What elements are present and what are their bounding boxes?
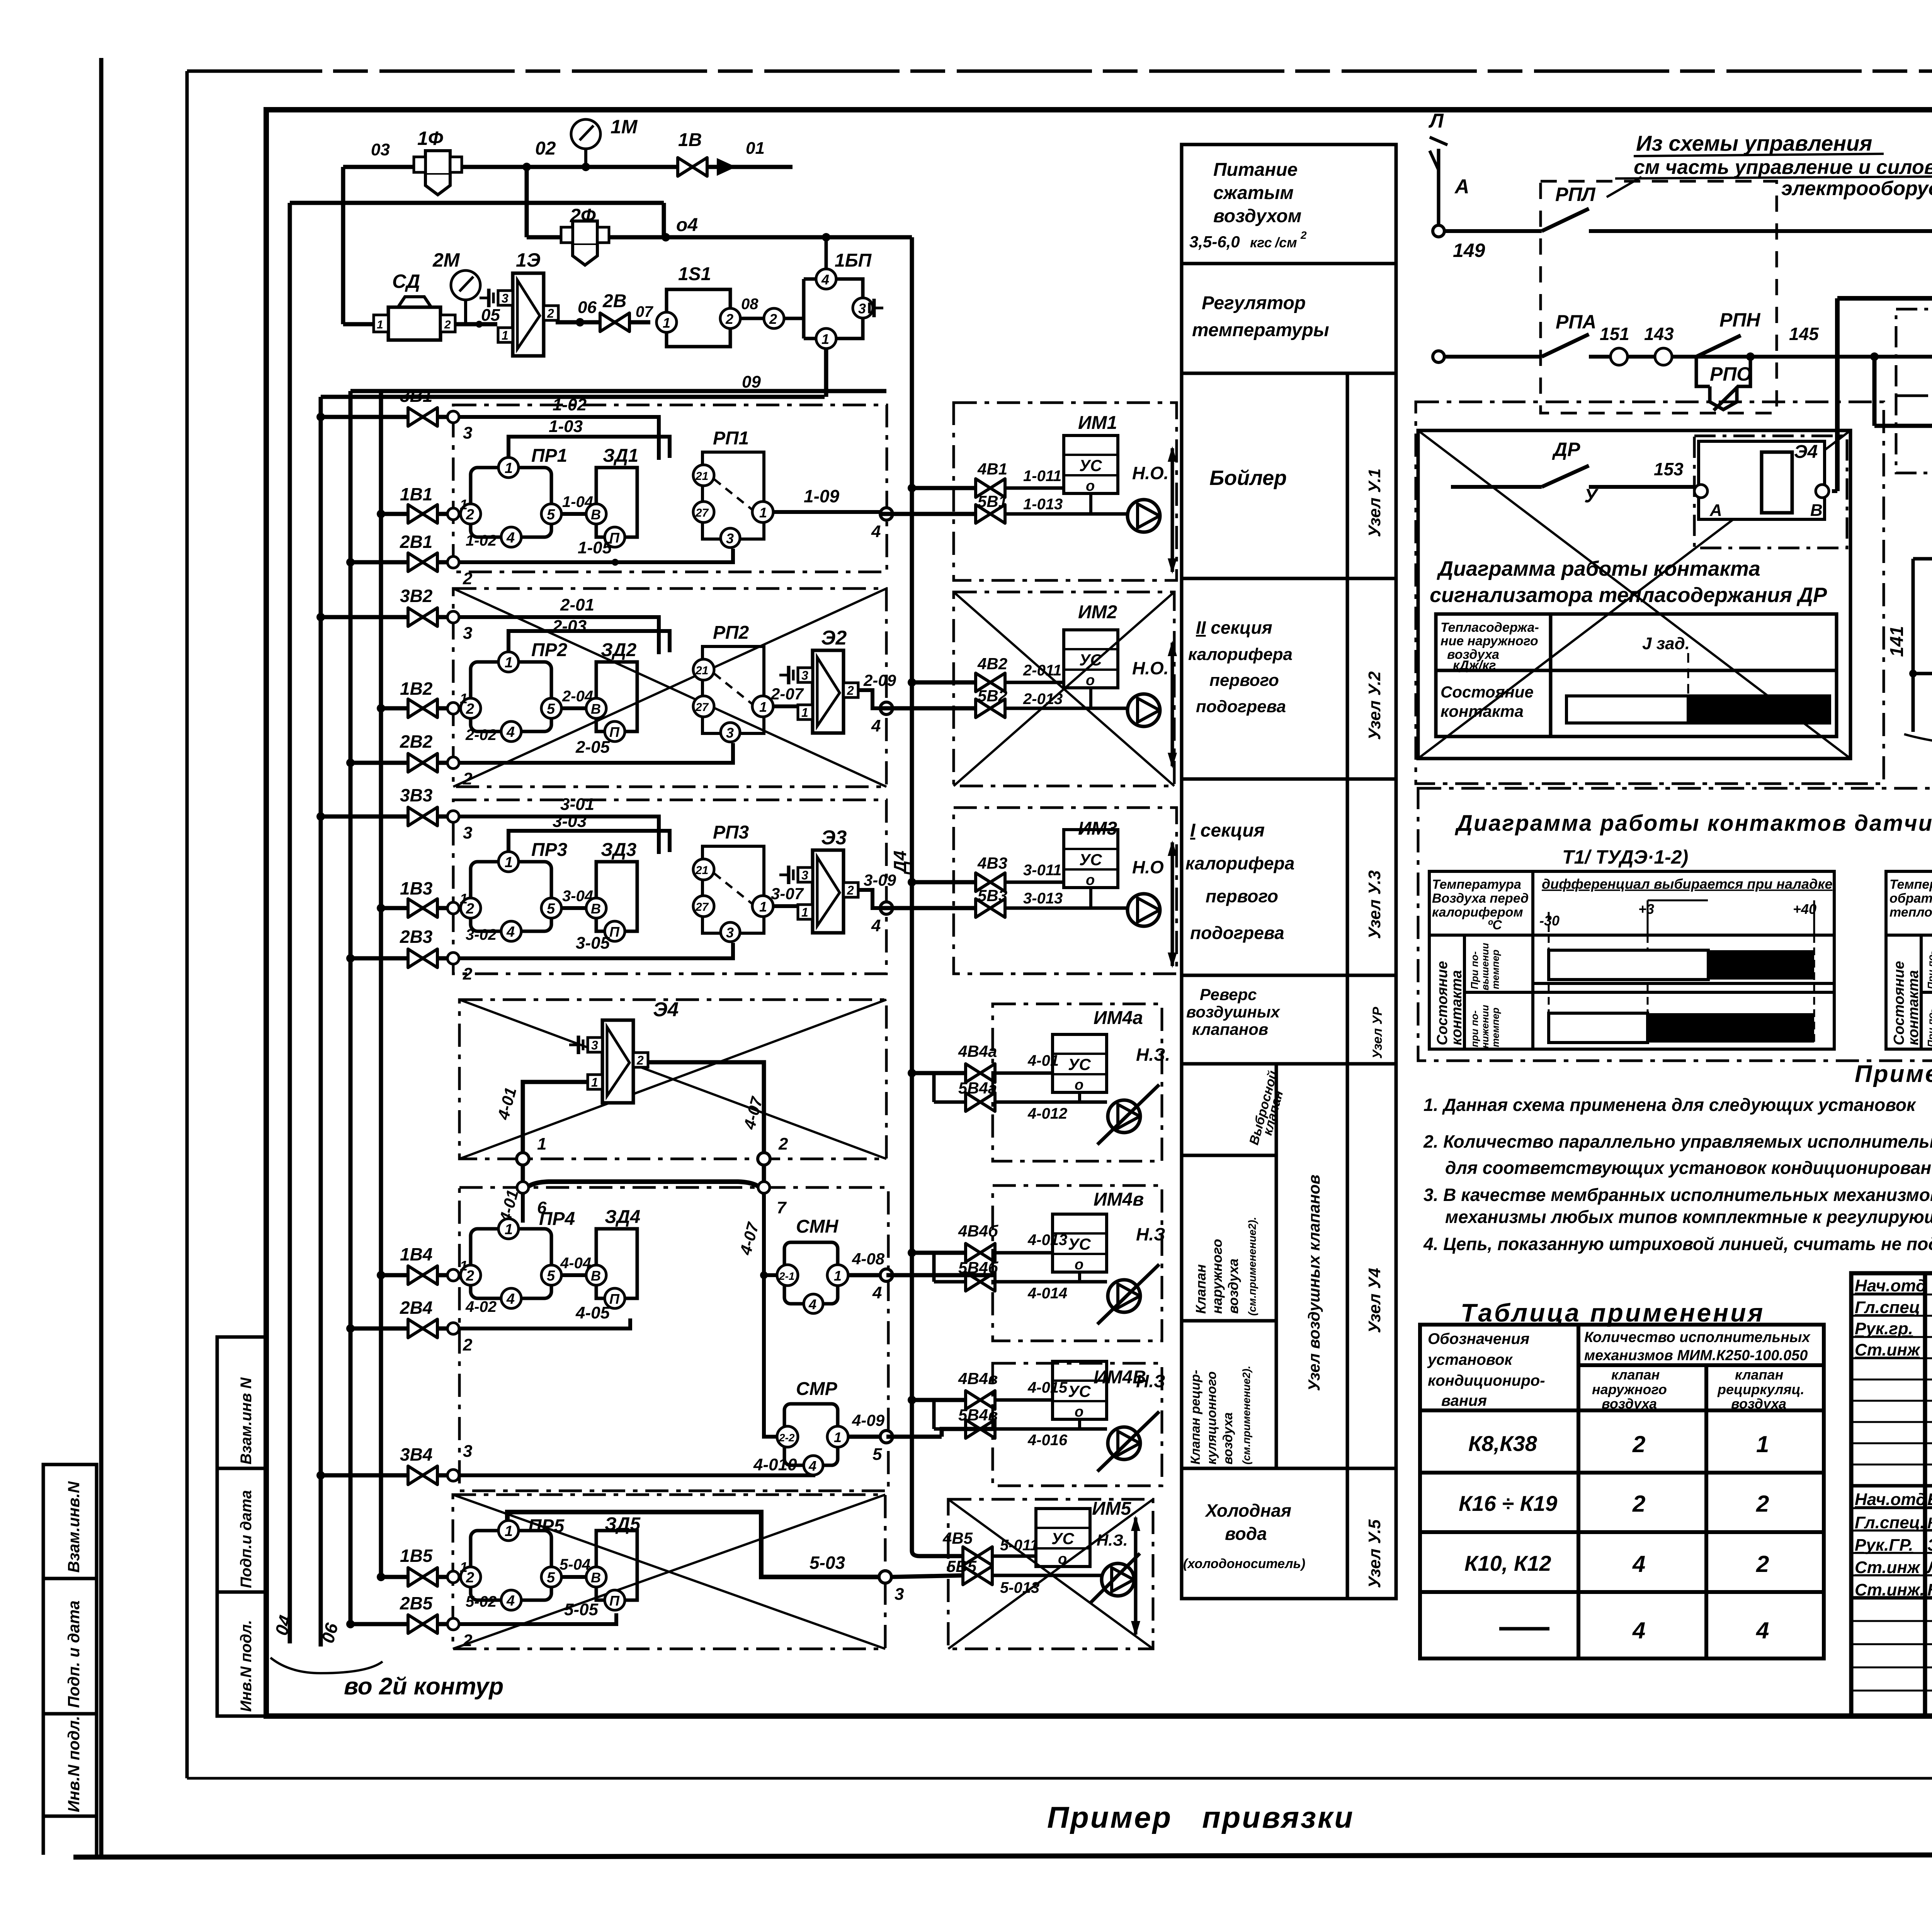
- svg-text:1: 1: [663, 315, 670, 331]
- svg-text:ИМ1: ИМ1: [1078, 413, 1117, 433]
- svg-text:1: 1: [377, 318, 383, 331]
- svg-text:Э2: Э2: [821, 627, 847, 649]
- svg-text:ИМ4в: ИМ4в: [1094, 1189, 1144, 1210]
- svg-text:При по-: При по-: [1925, 951, 1932, 989]
- svg-text:+3: +3: [1638, 901, 1654, 917]
- svg-text:1БП: 1БП: [835, 250, 872, 271]
- svg-text:Узел У.3: Узел У.3: [1365, 870, 1384, 939]
- svg-text:Н.З: Н.З: [1136, 1224, 1165, 1244]
- svg-text:5В1: 5В1: [978, 492, 1007, 510]
- svg-text:4-02: 4-02: [465, 1298, 497, 1315]
- svg-text:Бойлер: Бойлер: [1209, 466, 1287, 490]
- svg-text:Ст.инж.: Ст.инж.: [1855, 1580, 1925, 1599]
- svg-text:ЗД2: ЗД2: [601, 640, 637, 660]
- svg-text:Взам.инв.N: Взам.инв.N: [65, 1481, 83, 1573]
- svg-text:(холодоноситель): (холодоноситель): [1183, 1556, 1305, 1571]
- svg-text:5В4а: 5В4а: [958, 1079, 997, 1097]
- svg-text:3-05: 3-05: [576, 934, 610, 953]
- svg-text:2Ф: 2Ф: [570, 205, 596, 226]
- svg-text:02: 02: [535, 138, 556, 159]
- svg-text:2-2: 2-2: [779, 1432, 795, 1444]
- svg-text:3-01: 3-01: [560, 795, 594, 814]
- svg-text:Инв.N подл.: Инв.N подл.: [65, 1716, 83, 1812]
- svg-text:2М: 2М: [432, 249, 460, 271]
- svg-text:Евтушенко: Евтушенко: [1927, 1490, 1932, 1509]
- svg-text:Узел У.5: Узел У.5: [1365, 1519, 1384, 1588]
- svg-text:ИМ2: ИМ2: [1078, 602, 1117, 623]
- svg-text:Рук.ГР.: Рук.ГР.: [1855, 1536, 1913, 1555]
- svg-text:2: 2: [1632, 1491, 1645, 1517]
- svg-text:К8,К38: К8,К38: [1468, 1431, 1537, 1456]
- svg-text:К10, К12: К10, К12: [1464, 1551, 1551, 1575]
- svg-text:кгс: кгс: [1250, 235, 1272, 250]
- svg-text:Гл.спец: Гл.спец: [1855, 1298, 1920, 1317]
- svg-text:Подп.и дата: Подп.и дата: [238, 1490, 255, 1588]
- svg-text:03: 03: [371, 140, 390, 159]
- svg-text:5В3: 5В3: [978, 886, 1007, 905]
- svg-text:2-05: 2-05: [575, 738, 610, 757]
- svg-text:калорифера: калорифера: [1188, 645, 1293, 664]
- svg-text:Рук.гр.: Рук.гр.: [1855, 1319, 1913, 1338]
- svg-text:3В1: 3В1: [400, 386, 432, 406]
- svg-text:2-011: 2-011: [1023, 662, 1061, 679]
- svg-text:4-05: 4-05: [575, 1303, 610, 1322]
- svg-text:ЗД1: ЗД1: [603, 446, 638, 466]
- svg-text:3-011: 3-011: [1023, 862, 1061, 879]
- svg-text:1-03: 1-03: [549, 417, 583, 436]
- svg-text:Э3: Э3: [821, 827, 847, 849]
- svg-text:подогрева: подогрева: [1190, 923, 1284, 943]
- svg-text:08: 08: [741, 296, 759, 313]
- svg-text:3-03: 3-03: [553, 812, 587, 831]
- svg-text:Узел УР: Узел УР: [1370, 1007, 1385, 1059]
- svg-text:Н.З.: Н.З.: [1097, 1531, 1128, 1549]
- svg-text:2-03: 2-03: [552, 617, 587, 636]
- svg-text:подогрева: подогрева: [1196, 697, 1286, 716]
- svg-text:4-015: 4-015: [1027, 1379, 1068, 1396]
- svg-text:1: 1: [460, 891, 468, 907]
- svg-text:Состояние: Состояние: [1440, 683, 1534, 701]
- svg-text:К16 ÷ К19: К16 ÷ К19: [1459, 1491, 1557, 1516]
- svg-text:1В2: 1В2: [400, 679, 433, 699]
- svg-text:1-09: 1-09: [804, 486, 839, 506]
- svg-text:наружного: наружного: [1592, 1381, 1667, 1397]
- svg-text:РП1: РП1: [713, 428, 749, 449]
- svg-text:1В5: 1В5: [400, 1546, 433, 1566]
- svg-text:5В2: 5В2: [978, 687, 1007, 705]
- svg-text:РПЛ: РПЛ: [1555, 184, 1596, 205]
- svg-text:4: 4: [871, 716, 881, 735]
- svg-text:2. Количество параллельно упра: 2. Количество параллельно управляемых ис…: [1423, 1131, 1932, 1152]
- svg-text:4: 4: [1756, 1618, 1769, 1643]
- svg-text:вода: вода: [1225, 1524, 1267, 1544]
- svg-text:2: 2: [1756, 1551, 1769, 1577]
- svg-text:3. В качестве мембранных исп: 3. В качестве мембранных исполнительных …: [1423, 1185, 1932, 1205]
- svg-text:4. Цепь, показанную штриховой: 4. Цепь, показанную штриховой линией, сч…: [1423, 1234, 1932, 1254]
- svg-text:о4: о4: [676, 215, 698, 235]
- svg-text:Воздуха перед: Воздуха перед: [1432, 891, 1529, 906]
- svg-text:вания: вания: [1441, 1392, 1487, 1409]
- svg-text:1. Данная схема применена для: 1. Данная схема применена для следующих …: [1423, 1095, 1917, 1115]
- svg-text:Регулятор: Регулятор: [1202, 293, 1306, 313]
- svg-text:2В5: 2В5: [400, 1593, 433, 1613]
- svg-text:1Ф: 1Ф: [417, 128, 443, 149]
- svg-text:4В2: 4В2: [977, 655, 1007, 673]
- svg-text:4В4а: 4В4а: [958, 1042, 997, 1060]
- svg-text:контакта: контакта: [1440, 702, 1524, 720]
- svg-text:теплоносителя: теплоносителя: [1889, 905, 1932, 920]
- svg-text:при по-: при по-: [1469, 1010, 1480, 1047]
- svg-text:3-04: 3-04: [562, 888, 593, 905]
- svg-text:7: 7: [777, 1198, 787, 1217]
- svg-text:2-04: 2-04: [562, 688, 593, 705]
- svg-text:темпер: темпер: [1490, 1007, 1501, 1047]
- svg-text:3-09: 3-09: [864, 871, 896, 889]
- svg-text:ПР5: ПР5: [528, 1516, 565, 1536]
- svg-text:4: 4: [808, 1458, 816, 1474]
- svg-text:Примечания: Примечания: [1855, 1061, 1932, 1087]
- svg-text:1S1: 1S1: [678, 264, 711, 284]
- svg-text:1: 1: [460, 1559, 468, 1575]
- svg-text:2В: 2В: [602, 291, 626, 311]
- svg-text:1-04: 1-04: [562, 493, 593, 510]
- svg-text:2: 2: [769, 311, 777, 327]
- svg-text:контакта: контакта: [1449, 970, 1465, 1045]
- svg-text:4В4б: 4В4б: [958, 1222, 998, 1240]
- svg-text:СМР: СМР: [796, 1379, 838, 1399]
- svg-text:Э4: Э4: [653, 998, 679, 1021]
- svg-text:(см.применение2).: (см.применение2).: [1246, 1217, 1258, 1316]
- svg-text:2: 2: [1756, 1491, 1769, 1517]
- svg-text:воздуха: воздуха: [1602, 1396, 1657, 1412]
- svg-text:1: 1: [460, 691, 468, 706]
- svg-text:3-07: 3-07: [771, 885, 804, 903]
- svg-text:5-05: 5-05: [564, 1600, 599, 1619]
- svg-text:1-02: 1-02: [553, 395, 587, 414]
- svg-text:Обозначения: Обозначения: [1428, 1330, 1529, 1347]
- svg-text:ИМ5: ИМ5: [1092, 1499, 1132, 1519]
- svg-text:4В4в: 4В4в: [958, 1369, 998, 1388]
- svg-text:воздуха: воздуха: [1221, 1412, 1235, 1465]
- svg-text:2-09: 2-09: [863, 671, 896, 689]
- svg-text:5-03: 5-03: [810, 1553, 845, 1573]
- svg-text:4: 4: [1632, 1618, 1645, 1643]
- svg-text:2: 2: [725, 311, 733, 327]
- svg-text:Инв.N подл.: Инв.N подл.: [238, 1620, 255, 1712]
- svg-text:дифференциал выбирается при на: дифференциал выбирается при наладке: [1542, 876, 1833, 892]
- svg-text:Ј зад.: Ј зад.: [1642, 634, 1690, 653]
- svg-text:2: 2: [1300, 229, 1307, 241]
- svg-text:ºС: ºС: [1488, 918, 1502, 932]
- svg-text:3: 3: [463, 823, 472, 842]
- svg-text:Холодная: Холодная: [1204, 1500, 1291, 1521]
- svg-text:2-07: 2-07: [770, 685, 804, 703]
- svg-text:клапан: клапан: [1735, 1367, 1784, 1383]
- svg-text:Взам.инв N: Взам.инв N: [238, 1377, 255, 1465]
- svg-text:для соответствующих установок: для соответствующих установок кондициони…: [1445, 1158, 1932, 1178]
- svg-text:1В1: 1В1: [400, 484, 432, 504]
- svg-text:см часть управление и силовое: см часть управление и силовое: [1634, 156, 1932, 179]
- svg-text:1В4: 1В4: [400, 1244, 432, 1264]
- svg-text:РПО: РПО: [1710, 363, 1752, 385]
- svg-text:01: 01: [746, 139, 765, 158]
- svg-text:куляционного: куляционного: [1204, 1371, 1219, 1465]
- svg-text:1М: 1М: [611, 116, 638, 138]
- svg-text:2: 2: [463, 1631, 473, 1650]
- svg-text:5-04: 5-04: [560, 1556, 590, 1573]
- svg-text:Питание: Питание: [1213, 160, 1298, 180]
- svg-text:4-016: 4-016: [1027, 1432, 1068, 1449]
- svg-text:1-011: 1-011: [1023, 468, 1061, 485]
- svg-text:электрооборудование: электрооборудование: [1781, 177, 1932, 200]
- svg-text:Тепласодержа-: Тепласодержа-: [1440, 620, 1539, 635]
- svg-text:Н.О.: Н.О.: [1132, 658, 1169, 678]
- svg-text:ПР2: ПР2: [531, 640, 568, 660]
- svg-text:Подп. и дата: Подп. и дата: [65, 1601, 83, 1708]
- svg-text:установок: установок: [1427, 1351, 1513, 1368]
- svg-text:II секция: II секция: [1196, 617, 1272, 638]
- svg-text:(см.применение2).: (см.применение2).: [1240, 1366, 1252, 1465]
- svg-text:кДж/кг: кДж/кг: [1453, 658, 1496, 673]
- svg-text:5-013: 5-013: [1000, 1579, 1039, 1596]
- svg-text:3: 3: [463, 1442, 472, 1461]
- svg-text:воздуха: воздуха: [1731, 1396, 1786, 1412]
- svg-text:1-013: 1-013: [1023, 496, 1063, 513]
- svg-text:Нач.отд: Нач.отд: [1855, 1490, 1926, 1509]
- svg-text:141: 141: [1887, 626, 1907, 657]
- svg-text:клапан: клапан: [1611, 1367, 1660, 1383]
- svg-text:РПН: РПН: [1719, 309, 1760, 331]
- svg-text:клапанов: клапанов: [1192, 1020, 1268, 1038]
- svg-text:3В3: 3В3: [400, 785, 433, 805]
- svg-text:153: 153: [1654, 459, 1684, 479]
- svg-text:первого: первого: [1206, 886, 1278, 906]
- svg-text:3: 3: [463, 424, 472, 442]
- svg-text:А: А: [1454, 175, 1469, 198]
- svg-text:темпер: темпер: [1490, 949, 1501, 989]
- svg-text:Состояние: Состояние: [1891, 961, 1907, 1045]
- svg-text:1В: 1В: [678, 130, 702, 150]
- svg-text:1: 1: [537, 1135, 546, 1153]
- svg-text:5-011: 5-011: [1000, 1537, 1038, 1554]
- svg-text:ПР3: ПР3: [531, 840, 568, 860]
- svg-text:Зингерман: Зингерман: [1927, 1536, 1932, 1555]
- svg-text:ИМ4а: ИМ4а: [1094, 1008, 1143, 1028]
- svg-text:5: 5: [872, 1445, 882, 1464]
- svg-text:Диаграмма работы контакта: Диаграмма работы контакта: [1437, 557, 1760, 580]
- svg-text:4: 4: [808, 1296, 816, 1312]
- svg-text:механизмов МИМ.К250-100.050: механизмов МИМ.К250-100.050: [1584, 1347, 1808, 1364]
- svg-text:ДР: ДР: [1552, 439, 1580, 460]
- svg-text:1В3: 1В3: [400, 878, 433, 898]
- svg-text:РПА: РПА: [1556, 311, 1596, 333]
- svg-text:2-013: 2-013: [1023, 691, 1063, 708]
- svg-text:Н.О.: Н.О.: [1132, 463, 1169, 483]
- svg-text:во 2й контур: во 2й контур: [344, 1673, 503, 1700]
- svg-text:обратного: обратного: [1889, 891, 1932, 906]
- svg-text:калорифером: калорифером: [1432, 905, 1523, 920]
- svg-text:Узел У.2: Узел У.2: [1365, 671, 1384, 740]
- svg-text:рециркуляц.: рециркуляц.: [1717, 1381, 1804, 1397]
- svg-text:наружного: наружного: [1209, 1239, 1225, 1314]
- svg-text:3-02: 3-02: [466, 926, 497, 943]
- svg-text:4-09: 4-09: [852, 1411, 885, 1429]
- svg-text:сигнализатора тепласодержания: сигнализатора тепласодержания ДР: [1430, 583, 1827, 607]
- svg-text:4-08: 4-08: [852, 1250, 885, 1268]
- svg-text:149: 149: [1453, 240, 1485, 261]
- svg-text:06: 06: [578, 298, 597, 317]
- svg-text:ние наружного: ние наружного: [1440, 634, 1538, 648]
- svg-text:4-013: 4-013: [1027, 1232, 1067, 1249]
- svg-text:сжатым: сжатым: [1213, 183, 1294, 203]
- svg-text:ПР4: ПР4: [539, 1209, 575, 1229]
- svg-text:05: 05: [481, 306, 500, 325]
- svg-text:температуры: температуры: [1192, 320, 1329, 340]
- svg-text:2: 2: [463, 569, 473, 588]
- svg-text:Диаграмма работы контактов да: Диаграмма работы контактов датчиков защи…: [1454, 811, 1932, 836]
- svg-text:воздухом: воздухом: [1213, 206, 1301, 226]
- svg-text:2В1: 2В1: [400, 532, 432, 552]
- svg-text:4В5: 4В5: [942, 1529, 973, 1547]
- svg-text:4: 4: [1632, 1551, 1645, 1577]
- svg-text:Пример привязки: Пример привязки: [1047, 1800, 1354, 1834]
- svg-text:1-02: 1-02: [466, 532, 497, 549]
- svg-text:+40: +40: [1793, 901, 1816, 917]
- svg-text:2: 2: [463, 1335, 473, 1354]
- svg-text:3,5-6,0: 3,5-6,0: [1189, 233, 1240, 251]
- svg-text:РП3: РП3: [713, 822, 749, 843]
- svg-text:2-01: 2-01: [560, 595, 594, 614]
- svg-text:Клименко: Клименко: [1927, 1580, 1932, 1599]
- svg-text:А: А: [1709, 501, 1722, 520]
- svg-text:2-1: 2-1: [779, 1270, 794, 1282]
- svg-text:ЗД3: ЗД3: [601, 840, 637, 860]
- svg-text:151: 151: [1600, 324, 1629, 344]
- svg-text:4-014: 4-014: [1027, 1285, 1067, 1302]
- svg-text:4-04: 4-04: [560, 1255, 591, 1272]
- svg-text:5В5: 5В5: [947, 1557, 977, 1575]
- svg-text:2: 2: [463, 964, 473, 983]
- svg-text:Т1/ ТУДЭ·1-2): Т1/ ТУДЭ·1-2): [1562, 846, 1688, 868]
- svg-text:кондициониро-: кондициониро-: [1428, 1372, 1545, 1389]
- svg-text:143: 143: [1644, 324, 1674, 344]
- svg-text:Клапан рецир-: Клапан рецир-: [1188, 1370, 1203, 1465]
- svg-text:Л: Л: [1428, 110, 1444, 132]
- svg-text:Узел воздушных клапанов: Узел воздушных клапанов: [1305, 1175, 1323, 1391]
- svg-text:Клапан: Клапан: [1193, 1264, 1209, 1314]
- svg-text:первого: первого: [1209, 671, 1279, 690]
- svg-text:2-02: 2-02: [465, 726, 497, 743]
- svg-text:2В4: 2В4: [400, 1298, 432, 1318]
- svg-text:09: 09: [742, 373, 761, 391]
- svg-text:2: 2: [444, 318, 451, 331]
- svg-text:механизмы любых типов компл: механизмы любых типов комплектные к регу…: [1445, 1207, 1932, 1227]
- svg-text:4: 4: [871, 916, 881, 935]
- svg-text:2В2: 2В2: [400, 731, 433, 752]
- svg-text:3В2: 3В2: [400, 586, 433, 606]
- svg-text:/см: /см: [1274, 235, 1297, 250]
- svg-text:3В4: 3В4: [400, 1444, 432, 1465]
- svg-text:При по-: При по-: [1925, 1009, 1932, 1047]
- svg-text:2: 2: [778, 1135, 788, 1153]
- svg-text:Нач.отд: Нач.отд: [1855, 1276, 1926, 1295]
- svg-text:Из схемы управления: Из схемы управления: [1636, 131, 1872, 155]
- svg-text:07: 07: [636, 303, 653, 320]
- svg-text:5-02: 5-02: [466, 1593, 497, 1610]
- svg-text:1Э: 1Э: [516, 249, 541, 271]
- svg-text:4: 4: [872, 1283, 882, 1302]
- svg-text:У: У: [1584, 485, 1599, 507]
- svg-text:1: 1: [460, 1258, 468, 1274]
- svg-text:При по-: При по-: [1469, 951, 1480, 989]
- svg-text:4В3: 4В3: [977, 854, 1007, 872]
- svg-text:Кросташевский: Кросташевский: [1927, 1515, 1932, 1532]
- svg-text:3: 3: [463, 624, 472, 643]
- svg-text:1: 1: [834, 1429, 842, 1445]
- svg-text:Количество исполнительных: Количество исполнительных: [1584, 1329, 1811, 1345]
- svg-text:3-013: 3-013: [1023, 890, 1063, 907]
- svg-text:ИМ3: ИМ3: [1078, 818, 1117, 839]
- svg-text:2: 2: [463, 769, 473, 788]
- svg-text:5В4в: 5В4в: [958, 1406, 998, 1424]
- svg-text:Реверс: Реверс: [1200, 985, 1257, 1004]
- svg-text:4-01: 4-01: [1027, 1052, 1059, 1069]
- svg-text:Температура: Температура: [1889, 877, 1932, 892]
- svg-text:Ст.инж: Ст.инж: [1855, 1558, 1921, 1577]
- svg-text:ЗД4: ЗД4: [605, 1207, 640, 1227]
- svg-text:4-012: 4-012: [1027, 1105, 1067, 1122]
- svg-text:3: 3: [858, 301, 866, 316]
- svg-text:3: 3: [895, 1585, 904, 1604]
- svg-text:2В3: 2В3: [400, 927, 433, 947]
- svg-text:СМН: СМН: [796, 1216, 839, 1237]
- svg-text:нижении: нижении: [1479, 1005, 1491, 1048]
- svg-text:Гл.спец.: Гл.спец.: [1855, 1513, 1925, 1532]
- svg-text:В: В: [1810, 501, 1823, 520]
- svg-text:4: 4: [871, 522, 881, 541]
- svg-text:Температура: Температура: [1432, 877, 1521, 892]
- svg-text:контакта: контакта: [1905, 970, 1922, 1045]
- svg-text:ЗД5: ЗД5: [605, 1514, 641, 1534]
- svg-text:Н.З.: Н.З.: [1136, 1044, 1170, 1065]
- svg-text:Ст.инж: Ст.инж: [1855, 1340, 1921, 1359]
- svg-text:145: 145: [1789, 324, 1819, 344]
- svg-text:1: 1: [1756, 1431, 1769, 1457]
- svg-text:I секция: I секция: [1190, 820, 1265, 841]
- svg-text:1: 1: [834, 1268, 842, 1284]
- svg-text:СД: СД: [392, 270, 420, 292]
- svg-text:4В1: 4В1: [977, 460, 1007, 478]
- svg-text:воздуха: воздуха: [1225, 1259, 1241, 1314]
- svg-text:1: 1: [821, 331, 829, 347]
- svg-text:калорифера: калорифера: [1185, 853, 1294, 873]
- svg-text:Э4: Э4: [1794, 442, 1818, 462]
- svg-text:вышении: вышении: [1479, 943, 1491, 990]
- svg-text:Н.О: Н.О: [1132, 857, 1164, 877]
- svg-text:1-05: 1-05: [578, 538, 612, 557]
- svg-text:Таблица применения: Таблица применения: [1461, 1298, 1765, 1327]
- svg-text:Лазоренко: Лазоренко: [1926, 1558, 1932, 1577]
- svg-text:РП2: РП2: [713, 623, 749, 643]
- svg-text:Н.З: Н.З: [1136, 1371, 1165, 1391]
- svg-text:1: 1: [460, 497, 468, 512]
- svg-text:2: 2: [1632, 1431, 1645, 1457]
- svg-text:воздушных: воздушных: [1186, 1003, 1281, 1021]
- svg-text:4: 4: [821, 272, 829, 287]
- svg-text:ПР1: ПР1: [531, 446, 567, 466]
- svg-text:Узел У.1: Узел У.1: [1365, 468, 1384, 537]
- svg-text:Состояние: Состояние: [1434, 961, 1451, 1045]
